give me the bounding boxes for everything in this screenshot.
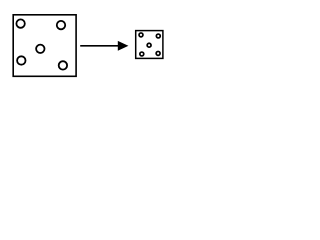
small square (downscaled image)	[136, 31, 163, 59]
dot bottom-left in small square	[140, 52, 144, 56]
dot top-right in small square	[156, 34, 160, 38]
circle center in large square	[36, 45, 44, 53]
circle top-left in large square	[16, 19, 24, 27]
dot top-left in small square	[139, 33, 143, 37]
arrow shaft	[80, 45, 119, 47]
circle bottom-right in large square	[59, 61, 67, 69]
large square (original image)	[13, 15, 76, 77]
circle top-right in large square	[57, 21, 65, 29]
arrow head	[118, 41, 129, 51]
circle bottom-left in large square	[17, 56, 25, 64]
dot bottom-right in small square	[156, 51, 160, 55]
dot center in small square	[147, 43, 151, 47]
